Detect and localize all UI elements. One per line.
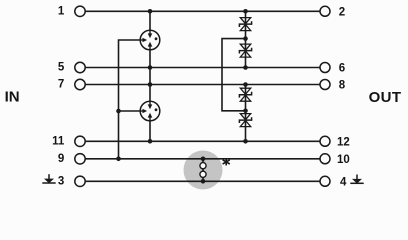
svg-text:12: 12 xyxy=(337,136,350,148)
svg-text:7: 7 xyxy=(58,79,64,91)
svg-text:9: 9 xyxy=(58,153,64,165)
svg-text:10: 10 xyxy=(337,154,350,166)
svg-text:8: 8 xyxy=(339,80,346,92)
svg-text:3: 3 xyxy=(58,176,64,188)
svg-text:5: 5 xyxy=(58,62,65,74)
svg-text:IN: IN xyxy=(5,89,20,106)
svg-text:OUT: OUT xyxy=(369,89,402,106)
svg-text:11: 11 xyxy=(52,136,65,148)
svg-text:4: 4 xyxy=(340,176,347,188)
svg-text:2: 2 xyxy=(339,6,345,18)
svg-text:1: 1 xyxy=(58,6,65,18)
svg-text:6: 6 xyxy=(339,63,345,75)
